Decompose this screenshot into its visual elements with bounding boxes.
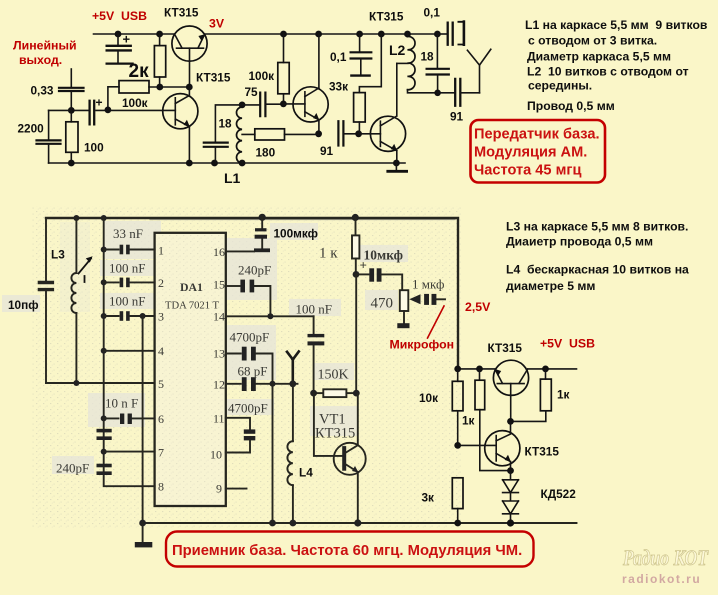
receiver +2.5V top rail xyxy=(150,219,455,221)
svg-text:12: 12 xyxy=(213,378,225,392)
svg-text:4700pF: 4700pF xyxy=(228,401,268,416)
capacitor C 4700pF pin11-pin10 xyxy=(226,418,250,429)
node 100k top xyxy=(280,31,287,38)
svg-text:3: 3 xyxy=(158,310,164,324)
receiver ground rail xyxy=(143,522,577,524)
resistor R 1k (supply) xyxy=(355,218,357,236)
svg-text:5: 5 xyxy=(158,377,164,391)
capacitor C 10pf xyxy=(45,218,47,281)
capacitor C 91 (antenna) xyxy=(438,92,455,94)
svg-text:100: 100 xyxy=(84,141,104,155)
watermark RadioKOT xyxy=(622,545,709,570)
resistor R 100k vertical xyxy=(283,34,285,104)
svg-text:с отводом от 3 витка.: с отводом от 3 витка. xyxy=(528,34,657,48)
svg-text:0,1: 0,1 xyxy=(424,6,441,20)
ground bus from pin13 node xyxy=(272,384,274,523)
antenna xyxy=(467,49,490,93)
resistor R 33k xyxy=(359,34,381,93)
ground symbol (receiver) xyxy=(142,523,144,542)
diode D1 KD522 xyxy=(503,471,519,480)
svg-text:100 nF: 100 nF xyxy=(296,302,332,317)
svg-text:+5V USB: +5V USB xyxy=(92,9,147,23)
svg-text:Диаметр каркаса 5,5 мм: Диаметр каркаса 5,5 мм xyxy=(527,50,671,64)
+5V wire (receiver output stage) xyxy=(457,368,577,370)
svg-text:10: 10 xyxy=(210,448,222,462)
svg-text:8: 8 xyxy=(158,480,164,494)
svg-text:Диаиетр провода 0,5 мм: Диаиетр провода 0,5 мм xyxy=(506,235,653,249)
svg-text:Передатчик база.: Передатчик база. xyxy=(474,127,600,143)
svg-text:10 n F: 10 n F xyxy=(105,396,138,411)
svg-text:240pF: 240pF xyxy=(56,461,89,476)
resistor R 150K xyxy=(314,392,323,394)
svg-text:33к: 33к xyxy=(329,80,348,94)
wire L2 tap xyxy=(397,62,408,64)
svg-text:91: 91 xyxy=(320,144,334,158)
svg-text:100мкф: 100мкф xyxy=(274,227,318,241)
svg-text:7: 7 xyxy=(158,446,164,460)
inductor L3 xyxy=(75,218,77,273)
svg-text:13: 13 xyxy=(213,347,225,361)
svg-text:КД522: КД522 xyxy=(541,487,577,501)
transistor Q4 KT315 xyxy=(370,116,405,151)
svg-text:4700pF: 4700pF xyxy=(230,330,270,345)
capacitor C 18 (antenna tank) xyxy=(436,34,438,68)
pin5 wire xyxy=(46,382,155,384)
svg-text:Микрофон: Микрофон xyxy=(390,338,455,352)
capacitor C 100nF (pin14) xyxy=(313,316,315,333)
transistor Q3 KT315 xyxy=(293,87,328,122)
svg-text:L3: L3 xyxy=(51,248,65,262)
diode D2 KD522 xyxy=(503,493,519,501)
svg-text:L1: L1 xyxy=(224,170,241,186)
svg-text:+: + xyxy=(123,32,131,47)
capacitor C 240pF (bus, pin7-pin8) xyxy=(97,464,112,468)
svg-text:Линейный: Линейный xyxy=(13,39,77,53)
node 33k xyxy=(378,31,385,38)
pin14 wire xyxy=(226,315,314,317)
capacitor C 0,33 xyxy=(70,69,72,87)
capacitor C 2200 xyxy=(49,109,72,111)
ground rail bottom (transmitter) xyxy=(49,162,405,164)
svg-text:L2 10 витков с отводом от: L2 10 витков с отводом от xyxy=(527,65,689,79)
capacitor electrolytic input (horizontal) xyxy=(90,101,95,125)
svg-text:L2: L2 xyxy=(389,42,406,58)
svg-text:0,1: 0,1 xyxy=(330,50,347,64)
ground (transmitter) xyxy=(395,163,397,171)
svg-text:16: 16 xyxy=(213,245,225,259)
ground bus (pin3 node) xyxy=(142,316,144,523)
svg-text:КТ315: КТ315 xyxy=(315,426,355,442)
capacitor C 240pF pin15 xyxy=(226,285,240,287)
svg-text:3V: 3V xyxy=(209,17,225,31)
capacitor C 68pF pin12 xyxy=(226,383,241,385)
svg-text:100 nF: 100 nF xyxy=(109,294,145,309)
resistor R 10k xyxy=(457,369,459,381)
mic pointer line xyxy=(428,306,445,338)
node 2k top xyxy=(156,31,163,38)
svg-text:0,33: 0,33 xyxy=(31,84,54,98)
svg-text:DA1: DA1 xyxy=(180,280,203,294)
svg-text:9: 9 xyxy=(216,482,222,496)
svg-text:КТ315: КТ315 xyxy=(369,10,404,24)
svg-text:1 к: 1 к xyxy=(319,246,338,262)
node +5V junction C-elec xyxy=(115,31,122,38)
red box transmitter xyxy=(471,120,606,183)
capacitor C 75 xyxy=(260,93,265,117)
svg-text:100к: 100к xyxy=(249,69,275,83)
svg-text:середины.: середины. xyxy=(528,79,592,93)
svg-text:2,5V: 2,5V xyxy=(465,300,491,314)
svg-text:1к: 1к xyxy=(557,388,570,402)
svg-text:10мкф: 10мкф xyxy=(364,248,403,263)
svg-text:Частота 45 мгц: Частота 45 мгц xyxy=(474,163,581,179)
capacitor C 10nF pin6 xyxy=(101,415,107,421)
node C 0,1 xyxy=(356,31,363,38)
inductor L2 with tap xyxy=(407,34,409,37)
svg-text:11: 11 xyxy=(213,412,225,426)
capacitor C (bus, pin6-pin7) xyxy=(97,429,112,433)
svg-text:33 nF: 33 nF xyxy=(113,226,143,241)
svg-text:1к: 1к xyxy=(462,414,475,428)
text block L3/L4 winding notes xyxy=(506,220,689,294)
pin9 stub xyxy=(226,488,247,490)
svg-text:Радио КОТ: Радио КОТ xyxy=(622,545,709,570)
capacitor C 18 (left of L1) xyxy=(215,105,242,142)
wire base Q2 from input network xyxy=(96,109,175,111)
capacitor C 100nF pin2 xyxy=(101,279,107,285)
svg-text:+5V USB: +5V USB xyxy=(540,337,595,351)
capacitor C 0,1 antenna coupling xyxy=(437,33,447,35)
svg-text:150K: 150K xyxy=(318,368,349,383)
svg-text:1 мкф: 1 мкф xyxy=(412,277,444,292)
transistor Q2 KT315 xyxy=(163,94,198,129)
svg-text:Провод 0,5 мм: Провод 0,5 мм xyxy=(527,99,615,113)
capacitor C 33nF pin1 xyxy=(101,247,107,253)
svg-text:14: 14 xyxy=(213,310,225,324)
transistor Q6 KT315 (output) xyxy=(485,431,520,466)
svg-text:TDA 7021 T: TDA 7021 T xyxy=(165,301,219,312)
svg-text:180: 180 xyxy=(256,146,276,160)
svg-text:100 nF: 100 nF xyxy=(109,261,145,276)
svg-text:68 pF: 68 pF xyxy=(238,364,268,379)
svg-text:L4 бескаркасная 10 витков на: L4 бескаркасная 10 витков на xyxy=(506,263,689,277)
+5V rail xyxy=(94,33,438,35)
capacitor electrolytic on +5V xyxy=(117,34,119,45)
text block L1/L2 winding notes xyxy=(525,18,708,113)
resistor R 1k (left) xyxy=(479,369,481,380)
svg-text:6: 6 xyxy=(158,412,164,426)
svg-text:Приемник база. Частота 60 мгц.: Приемник база. Частота 60 мгц. Модуляция… xyxy=(172,543,522,559)
resistor R 1k (right) xyxy=(545,369,547,379)
svg-text:КТ315: КТ315 xyxy=(525,445,560,459)
wire L1 top to C75 xyxy=(242,104,260,106)
capacitor C 4700pF pin13 xyxy=(226,353,241,355)
svg-text:240pF: 240pF xyxy=(238,263,271,278)
resistor R 470 (mic) xyxy=(400,290,409,311)
svg-text:91: 91 xyxy=(450,110,464,124)
svg-text:L4: L4 xyxy=(299,466,313,480)
svg-text:2200: 2200 xyxy=(18,122,45,136)
svg-text:100к: 100к xyxy=(122,96,148,110)
svg-text:18: 18 xyxy=(421,50,435,64)
svg-text:3к: 3к xyxy=(422,491,435,505)
node T3 collector xyxy=(315,31,322,38)
svg-text:диаметре 5 мм: диаметре 5 мм xyxy=(506,279,595,293)
resistor R 180 xyxy=(242,133,319,135)
svg-text:L1 на каркасе 5,5 мм 9 витков: L1 на каркасе 5,5 мм 9 витков xyxy=(525,18,708,32)
transistor Q1 KT315 top xyxy=(172,26,207,61)
resistor R 100k horizontal xyxy=(119,81,149,93)
svg-text:15: 15 xyxy=(213,278,225,292)
svg-text:КТ315: КТ315 xyxy=(164,6,199,20)
svg-text:L3 на каркасе 5,5 мм 8 витков.: L3 на каркасе 5,5 мм 8 витков. xyxy=(506,220,688,234)
receiver antenna xyxy=(287,352,299,384)
pin16 wire xyxy=(226,250,254,252)
bus to 150K xyxy=(355,274,357,393)
inductor L4 xyxy=(292,384,294,441)
svg-text:470: 470 xyxy=(371,296,394,312)
capacitor C 100nF pin3 xyxy=(101,313,107,319)
svg-text:КТ315: КТ315 xyxy=(196,71,231,85)
capacitor C 91 (coupling) xyxy=(338,121,343,145)
svg-text:10к: 10к xyxy=(419,391,438,405)
pin7 wire xyxy=(101,449,107,455)
svg-text:+: + xyxy=(96,96,103,110)
svg-text:Модуляция АМ.: Модуляция АМ. xyxy=(474,145,587,161)
svg-text:4: 4 xyxy=(158,344,164,358)
svg-text:75: 75 xyxy=(245,85,259,99)
svg-text:2к: 2к xyxy=(129,61,150,82)
node L2 top xyxy=(404,31,411,38)
red box receiver xyxy=(166,532,534,567)
pin4 wire xyxy=(101,348,107,354)
inductor L1 xyxy=(241,105,243,107)
svg-text:18: 18 xyxy=(219,117,233,131)
wire 2k/base node xyxy=(149,86,190,88)
microphone (electret) C 1mkf xyxy=(409,294,420,304)
transistor Q5 KT315 (emitter follower) xyxy=(493,360,528,395)
left bus xyxy=(104,218,155,486)
resistor R 2k xyxy=(159,34,161,87)
resistor R 100 xyxy=(70,110,72,163)
transistor VT1 KT315 xyxy=(314,393,342,456)
capacitor C 10mkf xyxy=(356,273,369,275)
trimmer arrow L3 xyxy=(79,259,92,274)
IC DA1 TDA7021 xyxy=(155,233,226,506)
svg-text:выход.: выход. xyxy=(19,53,62,67)
svg-text:КТ315: КТ315 xyxy=(488,341,523,355)
svg-text:radiokot.ru: radiokot.ru xyxy=(622,572,701,586)
node antenna coupling xyxy=(434,31,441,38)
svg-text:+: + xyxy=(360,258,367,273)
resistor R 3k xyxy=(452,478,463,509)
svg-text:1: 1 xyxy=(158,244,164,258)
svg-text:2: 2 xyxy=(158,276,164,290)
capacitor C 100mkf (supply) xyxy=(261,217,263,228)
capacitor C 0,1 (tank) xyxy=(359,34,361,52)
svg-text:10пф: 10пф xyxy=(8,298,39,312)
